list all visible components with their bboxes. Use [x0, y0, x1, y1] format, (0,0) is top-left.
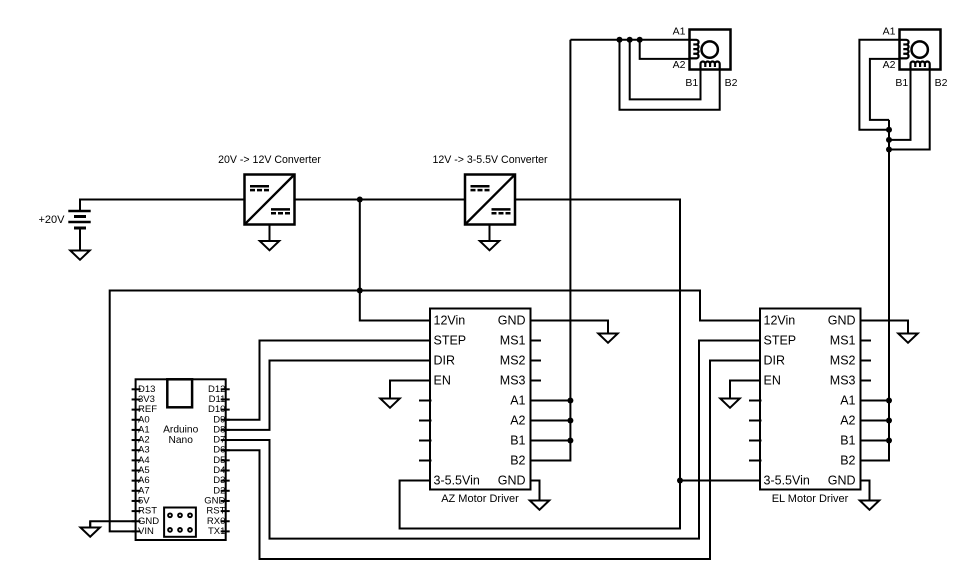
svg-text:+20V: +20V [39, 214, 66, 226]
driver EL Motor Driver [760, 309, 861, 506]
wire 12V down from rail to distribution row [359, 200, 361, 291]
ground [720, 381, 739, 408]
wire AZ EN to ground [390, 381, 430, 397]
svg-text:DIR: DIR [764, 354, 786, 368]
driver AZ Motor Driver [430, 309, 531, 506]
converter 12V -> 3-5.5V Converter [432, 154, 548, 225]
svg-text:3-5.5Vin: 3-5.5Vin [764, 474, 810, 488]
node EL motor junction B2 [886, 147, 892, 153]
wire 3-5.5V to EL driver 3-5.5Vin [680, 480, 760, 482]
svg-text:STEP: STEP [434, 334, 467, 348]
svg-text:A1: A1 [510, 394, 525, 408]
microcontroller Arduino Nano [136, 379, 226, 540]
wire Arduino D8 to AZ DIR [226, 361, 430, 430]
ground [530, 481, 549, 510]
wire EL driver A1 to bus [861, 400, 890, 402]
svg-text:MS2: MS2 [500, 354, 526, 368]
svg-text:B2: B2 [510, 454, 525, 468]
wire EL motor B2 [889, 64, 930, 150]
pin stubs AZ driver left unconnected [419, 401, 432, 461]
node 3-5.5V junction [677, 478, 683, 484]
svg-text:GND: GND [828, 474, 856, 488]
wire AZ motor A1 [570, 39, 689, 41]
wire battery positive to 20V rail [80, 200, 245, 212]
node 12V distribution junction [357, 288, 363, 294]
wire 12V distribution to Arduino VIN [110, 291, 360, 532]
icsp header Arduino [164, 508, 196, 537]
svg-text:GND: GND [828, 314, 856, 328]
svg-text:MS3: MS3 [830, 374, 856, 388]
ground [260, 225, 279, 251]
svg-text:MS3: MS3 [500, 374, 526, 388]
wire Arduino GND to ground [90, 521, 135, 527]
svg-text:MS1: MS1 [500, 334, 526, 348]
node AZ bus B1 [567, 438, 573, 444]
wire 12V rail converter1 output to converter2 input [295, 199, 466, 201]
node EL bus A2 [886, 418, 892, 424]
svg-text:EL Motor Driver: EL Motor Driver [772, 493, 849, 505]
wire EL motor A1 [859, 40, 899, 130]
svg-text:VIN: VIN [138, 526, 154, 537]
svg-text:A1: A1 [673, 26, 686, 38]
node EL bus A1 [886, 398, 892, 404]
svg-text:A2: A2 [510, 414, 525, 428]
pin labels and stubs Arduino left [132, 384, 160, 537]
svg-text:EN: EN [434, 374, 451, 388]
svg-text:STEP: STEP [764, 334, 797, 348]
wire Arduino D9 to AZ STEP [226, 341, 430, 420]
wire AZ driver bottom GND to ground [531, 481, 540, 500]
svg-text:AZ Motor Driver: AZ Motor Driver [441, 493, 519, 505]
svg-text:20V -> 12V Converter: 20V -> 12V Converter [218, 154, 321, 166]
usb connector Arduino [167, 379, 192, 407]
node AZ motor junction A2 [637, 37, 643, 43]
wire Arduino D7 to EL STEP [226, 341, 760, 539]
pin stubs AZ driver MS1 MS2 MS3 [531, 341, 542, 381]
stepper motor EL [900, 30, 941, 70]
wire EL motor bus vertical and B2 [861, 120, 890, 461]
svg-text:Nano: Nano [169, 435, 194, 446]
node EL bus B1 [886, 438, 892, 444]
ground [898, 321, 917, 343]
wire EL driver GND to ground [861, 321, 909, 334]
svg-text:B2: B2 [935, 77, 948, 89]
stepper motor AZ [690, 30, 731, 70]
wire AZ driver A1 to bus [531, 400, 571, 402]
wire AZ motor bus vertical and B2 [531, 40, 571, 461]
svg-text:A2: A2 [883, 59, 896, 71]
svg-text:DIR: DIR [434, 354, 456, 368]
wire EL EN to ground [730, 381, 760, 397]
wire AZ motor B1 [630, 40, 701, 100]
node AZ bus A2 [567, 418, 573, 424]
wire EL motor B1 [889, 64, 911, 140]
pin stubs EL driver left unconnected [749, 401, 762, 461]
node EL motor junction A1 [886, 127, 892, 133]
ground [860, 481, 879, 510]
svg-text:A1: A1 [840, 394, 855, 408]
wire AZ driver B1 to bus [531, 440, 571, 442]
pin stubs EL driver MS1 MS2 MS3 [861, 341, 872, 381]
svg-text:B2: B2 [725, 77, 738, 89]
svg-text:12Vin: 12Vin [434, 314, 466, 328]
svg-text:GND: GND [498, 474, 526, 488]
svg-text:EN: EN [764, 374, 781, 388]
svg-text:MS2: MS2 [830, 354, 856, 368]
node AZ motor junction B1 [627, 37, 633, 43]
wire EL driver bottom GND to ground [861, 481, 870, 500]
svg-text:12Vin: 12Vin [764, 314, 796, 328]
node EL motor junction B1 [886, 137, 892, 143]
wire converter2 output down to 3-5.5V distribution [400, 200, 680, 529]
ground [480, 225, 499, 251]
svg-text:MS1: MS1 [830, 334, 856, 348]
node 12V rail junction [357, 197, 363, 203]
node AZ bus A1 [567, 398, 573, 404]
ground [380, 381, 399, 408]
wire 12V distribution row to EL driver 12Vin [360, 291, 760, 321]
svg-text:B1: B1 [510, 434, 525, 448]
svg-text:A2: A2 [840, 414, 855, 428]
svg-text:A2: A2 [673, 59, 686, 71]
svg-text:Arduino: Arduino [163, 424, 198, 435]
node AZ motor junction B2 [617, 37, 623, 43]
ground [70, 228, 89, 260]
wire EL driver B1 to bus [861, 440, 890, 442]
wire AZ motor B2 [620, 40, 720, 110]
wire Arduino D6 to EL DIR [226, 361, 760, 560]
svg-text:12V -> 3-5.5V Converter: 12V -> 3-5.5V Converter [432, 154, 548, 166]
battery +20V [39, 211, 91, 228]
wire 12V to AZ driver 12Vin [360, 291, 430, 321]
wire AZ driver A2 to bus [531, 420, 571, 422]
svg-text:TX1: TX1 [208, 526, 225, 537]
ground [81, 521, 100, 537]
svg-text:B2: B2 [840, 454, 855, 468]
wire EL motor A2 [870, 59, 900, 120]
ground [598, 321, 617, 343]
svg-text:B1: B1 [895, 77, 908, 89]
svg-text:A1: A1 [883, 26, 896, 38]
wire EL driver A2 to bus [861, 420, 890, 422]
svg-text:B1: B1 [840, 434, 855, 448]
converter 20V -> 12V Converter [218, 154, 321, 225]
svg-text:B1: B1 [685, 77, 698, 89]
pin labels and stubs Arduino right [204, 384, 229, 537]
svg-text:GND: GND [498, 314, 526, 328]
svg-text:3-5.5Vin: 3-5.5Vin [434, 474, 480, 488]
wire AZ motor A2 [640, 40, 690, 59]
wire AZ driver GND to ground [531, 321, 609, 334]
